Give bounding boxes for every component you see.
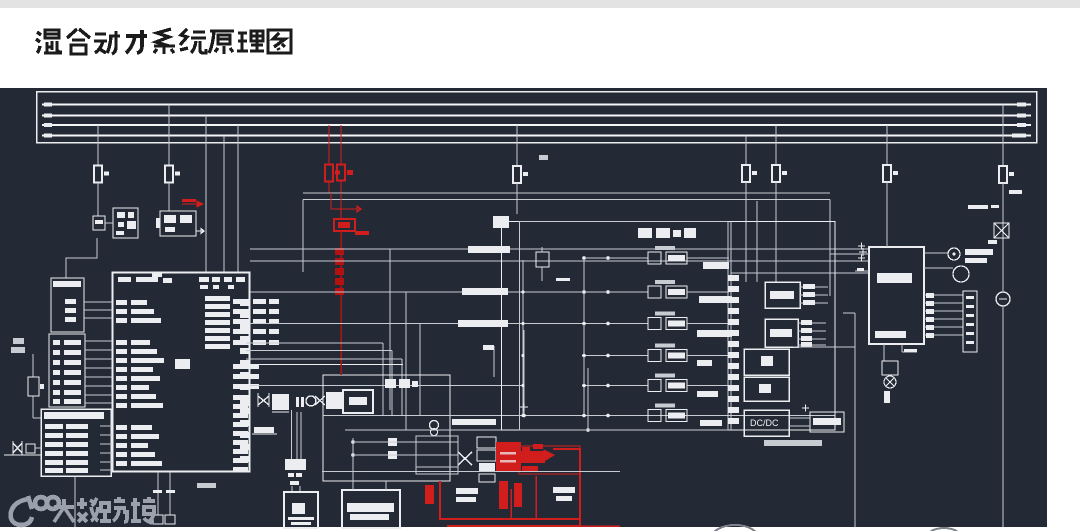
contactor KM2 (584, 291, 648, 293)
wire x75 down (74, 476, 76, 527)
relay block K3 (160, 211, 196, 236)
bus right terminals (1017, 102, 1026, 106)
block C pins (100, 425, 112, 427)
wire drop + fuse F2 (168, 105, 170, 166)
ECU left pin rows (116, 300, 127, 305)
wires DC/DC-24V (789, 417, 810, 419)
wire step L3 (246, 358, 402, 360)
wheel arc W1 (711, 525, 759, 531)
wire H y415 (323, 415, 835, 417)
motor X3 (458, 452, 472, 465)
red vertical label cable (340, 231, 342, 375)
wire corner N2 (405, 292, 407, 430)
ECU inner right pin strip (240, 300, 249, 306)
rotor lines (416, 441, 458, 443)
ECU right outer labels (233, 299, 250, 304)
lamp L2 (953, 266, 969, 282)
wire drop + fuse F6 (886, 125, 888, 165)
charger bottom stubs (883, 344, 885, 361)
block A pins (84, 301, 112, 303)
contactor KM6 (584, 415, 648, 417)
block C transmission controller (41, 409, 111, 476)
rail x523 (522, 260, 524, 416)
red breaker CB1 (334, 219, 355, 231)
contactor KM1 (584, 257, 648, 259)
rail x592 (583, 260, 585, 416)
red arrow wire (331, 193, 361, 212)
block A (left module) (51, 278, 84, 332)
contactor KM4 (584, 355, 648, 357)
wire drop x830 to DC/AC relays (829, 200, 831, 297)
block B (left module 2) (49, 334, 85, 407)
watermark text 大数跨境 (54, 497, 155, 523)
watermark logo (11, 496, 59, 525)
red bar2 (514, 483, 522, 507)
wire H pair upper (303, 192, 830, 194)
gearcase G1 (272, 394, 289, 410)
engine box E1 (240, 395, 249, 406)
wire corner N1 (389, 249, 391, 410)
ECU center blob (175, 359, 190, 369)
rail x1003 lower (1002, 306, 1004, 527)
wire drop x206 (205, 116, 207, 273)
wire feed y273 (731, 272, 869, 274)
wire x855 down (854, 313, 856, 527)
charger block U2 (869, 247, 924, 344)
relay block KMa (765, 282, 800, 308)
connector J1 (963, 291, 977, 352)
transmission label (385, 379, 396, 388)
relay block KMb (765, 319, 798, 347)
minus lamp on rail (996, 292, 1010, 306)
contactor KM3 (584, 323, 648, 325)
lamp L1 (948, 248, 960, 260)
red cable arm (521, 451, 545, 463)
HV labels 2 (553, 487, 575, 493)
wire step L2 (246, 350, 392, 352)
wire feed y292 (250, 291, 592, 293)
wire feed y386 (250, 385, 523, 387)
red label LR1 (182, 199, 196, 202)
red bar1 (499, 481, 508, 509)
charger right pins (924, 252, 948, 254)
wire x757 drop (756, 201, 758, 282)
wire below gearcase (254, 427, 274, 433)
wire shaft top (246, 364, 403, 366)
CAN label (452, 419, 496, 425)
block DC/DC (744, 410, 789, 436)
contactor KM5 (584, 385, 648, 387)
motor box M2 (326, 392, 342, 409)
wires below ECU (157, 472, 159, 515)
contactor feed comp (493, 216, 509, 228)
wire x524 down (523, 330, 525, 416)
red loop left (440, 481, 580, 519)
battery block BT1 (284, 492, 318, 528)
coupling X2 (315, 396, 325, 405)
ticks right top (1009, 190, 1022, 194)
gear pumps (430, 421, 439, 430)
red HV unit (496, 442, 521, 472)
enclosure label 直流变换器 (638, 228, 652, 238)
red loop right (447, 449, 580, 526)
arrow out of K3 (196, 229, 204, 234)
motor M1 (left X symbol) (13, 441, 22, 455)
bus frame (37, 92, 1037, 143)
ECU bottom text (197, 483, 216, 488)
charger left stub (855, 270, 869, 272)
red drop into transmission (340, 364, 342, 375)
bus line B1 (42, 104, 1031, 106)
red fuse FR1 (328, 125, 330, 165)
coupling X1 (258, 393, 269, 407)
ECU left stubs (100, 301, 112, 303)
wire drop + fuse F5 (775, 125, 777, 165)
top gray strip (0, 0, 1080, 8)
wire from fuse to charger (886, 182, 888, 247)
ring coupling (306, 396, 316, 406)
block BRK2 (744, 377, 789, 401)
block 24V supply (810, 412, 844, 432)
junction dots y415 (522, 414, 526, 418)
red bar3 (425, 485, 434, 504)
pin boxes column (728, 275, 739, 281)
block B pins (85, 340, 112, 342)
bus left terminals (44, 103, 52, 107)
relay K1 small coil (93, 216, 105, 230)
wire drop + fuse F4 (745, 136, 747, 166)
title 混合动力系统原理图 (36, 30, 62, 53)
svg-text:DC/DC: DC/DC (750, 418, 779, 428)
wire x386 down (385, 481, 387, 490)
wheel arc W2 (925, 528, 963, 531)
ECU main block U1 (113, 273, 250, 472)
wire feed y249 (250, 248, 869, 250)
traction battery block BT2 (342, 490, 400, 528)
HV labels (456, 488, 478, 494)
wire drop x238 (237, 125, 239, 272)
label under DC/DC (764, 440, 822, 446)
breaker box BX1 (994, 223, 1009, 238)
sensor S1 (536, 252, 549, 267)
wire drop x300 (302, 200, 304, 273)
ECU top pin labels (118, 277, 131, 282)
wires down to battery (291, 410, 293, 459)
block BRK1 (744, 349, 789, 375)
red thin outline (519, 446, 580, 474)
wire drop x224 (223, 136, 225, 273)
DC converter enclosure (502, 222, 836, 431)
wire H pair lower (303, 199, 830, 201)
clutch bars (296, 397, 299, 407)
wire feed y323 (250, 323, 592, 325)
bus line B3 (42, 124, 1031, 126)
wire K2 down to block A (66, 238, 97, 278)
charger + terminal (859, 248, 867, 256)
wire stub x494 (493, 346, 495, 377)
wire corner N3 (419, 324, 421, 416)
transmission box (323, 375, 450, 481)
wire x588 down (587, 368, 589, 430)
red fuse FR2 (340, 125, 342, 164)
wire drop + fuse F3 (516, 125, 518, 166)
wire feed y261 (250, 260, 869, 262)
fuse F8 left (13, 338, 24, 344)
bus line B2 (42, 115, 1031, 117)
wire step L1 (246, 342, 383, 344)
relay block K2 (113, 208, 138, 238)
junction dots rail (521, 290, 524, 293)
ECU right inner column (205, 296, 230, 301)
wire drop + fuse F1 (97, 125, 99, 166)
inner divider x731 (730, 222, 732, 431)
charge socket CD (882, 361, 898, 375)
wire y471 long (322, 471, 620, 473)
ISG box (343, 390, 373, 413)
wire x353 down (352, 438, 354, 490)
text spec 24d (539, 155, 548, 160)
wire K1-K2 (105, 222, 113, 224)
gear dots right of battery (388, 438, 397, 446)
bus line B4 (42, 135, 1031, 137)
wire H y430 (345, 429, 835, 431)
wire drop + fuse F7 (1002, 105, 1004, 167)
inverter stack (477, 437, 496, 448)
DC converter inner box (520, 222, 729, 431)
